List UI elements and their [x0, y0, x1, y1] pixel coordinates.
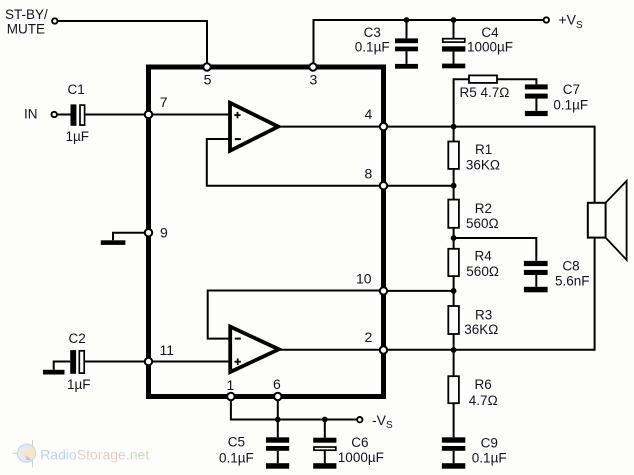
svg-text:C5: C5 — [228, 434, 245, 449]
svg-text:560Ω: 560Ω — [466, 216, 499, 231]
svg-text:C4: C4 — [481, 25, 499, 40]
svg-text:2: 2 — [365, 329, 373, 345]
svg-text:1µF: 1µF — [67, 377, 91, 392]
svg-text:9: 9 — [160, 225, 168, 241]
svg-text:ST-BY/: ST-BY/ — [5, 7, 48, 22]
svg-text:R4: R4 — [475, 249, 493, 264]
svg-text:1: 1 — [227, 377, 235, 393]
svg-text:6: 6 — [273, 376, 281, 392]
svg-text:R3: R3 — [475, 308, 492, 323]
svg-text:R5 4.7Ω: R5 4.7Ω — [460, 85, 510, 100]
svg-text:10: 10 — [356, 270, 372, 286]
svg-text:36KΩ: 36KΩ — [464, 322, 498, 337]
svg-text:36KΩ: 36KΩ — [466, 158, 500, 173]
svg-text:0.1µF: 0.1µF — [553, 98, 588, 113]
svg-text:7: 7 — [160, 94, 168, 110]
svg-text:C1: C1 — [68, 82, 85, 97]
svg-text:1000µF: 1000µF — [338, 450, 384, 465]
svg-text:0.1µF: 0.1µF — [219, 450, 254, 465]
svg-text:4.7Ω: 4.7Ω — [469, 393, 498, 408]
svg-text:C3: C3 — [364, 25, 381, 40]
svg-text:1000µF: 1000µF — [467, 40, 513, 55]
svg-text:11: 11 — [160, 342, 175, 358]
svg-text:C6: C6 — [351, 435, 368, 450]
svg-text:560Ω: 560Ω — [466, 264, 499, 279]
svg-text:0.1µF: 0.1µF — [472, 451, 507, 466]
svg-text:C9: C9 — [481, 436, 498, 451]
svg-text:0.1µF: 0.1µF — [355, 40, 390, 55]
svg-text:C8: C8 — [562, 258, 579, 273]
svg-text:8: 8 — [365, 165, 373, 181]
svg-text:5: 5 — [204, 72, 212, 88]
svg-text:C7: C7 — [563, 82, 580, 97]
svg-text:RadioStorage.net: RadioStorage.net — [40, 447, 149, 463]
svg-text:IN: IN — [24, 107, 38, 122]
svg-text:R2: R2 — [475, 201, 492, 216]
svg-text:5.6nF: 5.6nF — [555, 274, 590, 289]
svg-text:3: 3 — [310, 72, 318, 88]
svg-text:R6: R6 — [475, 377, 492, 392]
svg-text:1µF: 1µF — [66, 129, 90, 144]
svg-text:4: 4 — [365, 106, 373, 122]
svg-text:R1: R1 — [475, 142, 492, 157]
svg-text:MUTE: MUTE — [7, 21, 45, 36]
svg-text:C2: C2 — [69, 331, 86, 346]
